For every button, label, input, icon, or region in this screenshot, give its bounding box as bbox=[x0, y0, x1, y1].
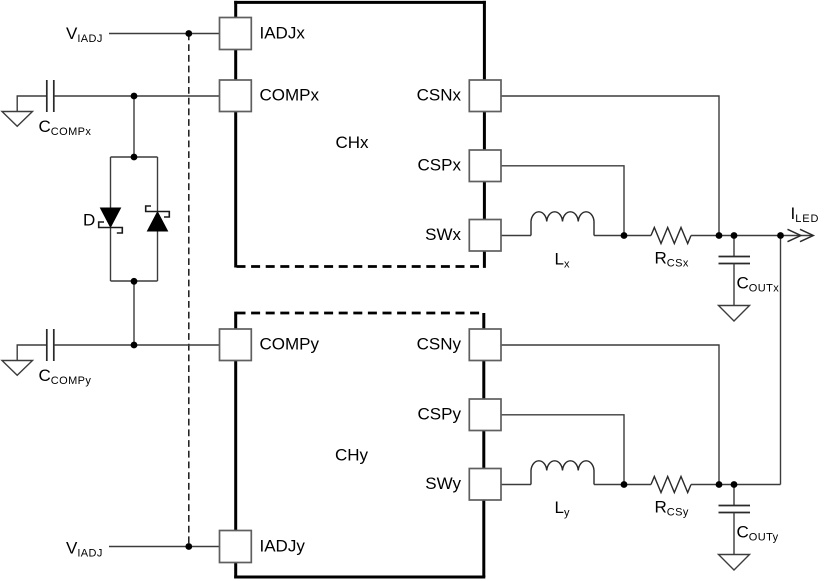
wire VIADJ bottom to IADJy bbox=[109, 546, 220, 548]
pin SWx bbox=[469, 220, 501, 252]
wire diode left branch lower bbox=[110, 228, 112, 282]
pin CSNx bbox=[469, 80, 501, 112]
IC CHy right edge bbox=[482, 313, 485, 577]
node on VIADJ top line bbox=[185, 30, 192, 37]
wire ground to CCOMPy bbox=[17, 345, 47, 361]
ground symbol at CCOMPx bbox=[2, 112, 33, 127]
svg-text:CSPy: CSPy bbox=[418, 404, 462, 423]
pin COMPy bbox=[220, 329, 252, 361]
wire diode right branch lower bbox=[157, 231, 159, 281]
wire CSNx to right bus bbox=[501, 96, 719, 236]
pin CSPy bbox=[469, 399, 501, 431]
IC CHx right edge bbox=[483, 1, 486, 268]
svg-text:RCSy: RCSy bbox=[655, 498, 689, 519]
svg-text:COUTy: COUTy bbox=[737, 523, 779, 544]
wire SWy to inductor bbox=[501, 484, 531, 486]
capacitor COUTy bbox=[719, 506, 751, 513]
svg-text:Ly: Ly bbox=[555, 498, 570, 519]
svg-text:COMPy: COMPy bbox=[260, 335, 320, 354]
svg-text:Lx: Lx bbox=[555, 250, 570, 271]
wire CSPy to Ly output node bbox=[501, 415, 624, 485]
svg-text:VIADJ: VIADJ bbox=[66, 24, 103, 45]
wire diode bottom to COMPy node bbox=[133, 281, 135, 345]
pin IADJx bbox=[220, 18, 252, 50]
wire COMPx node down to diode top rail bbox=[133, 96, 135, 157]
capacitor CCOMPy bbox=[47, 329, 54, 361]
svg-text:CSPx: CSPx bbox=[418, 155, 462, 174]
wire SWx to inductor bbox=[501, 235, 531, 237]
node COMPx / diode branch bbox=[131, 93, 138, 100]
node diode bottom rail bbox=[131, 278, 138, 285]
node COUTy tap bbox=[731, 481, 738, 488]
svg-text:VIADJ: VIADJ bbox=[66, 539, 103, 560]
wire CCOMPx to COMPx bbox=[54, 95, 220, 97]
node diode top rail bbox=[131, 154, 138, 161]
ground symbol at CCOMPy bbox=[2, 361, 33, 376]
wire CSPx to Lx output node bbox=[501, 166, 624, 236]
inductor Lx bbox=[531, 212, 594, 236]
svg-text:CCOMPx: CCOMPx bbox=[39, 117, 92, 138]
svg-text:CCOMPy: CCOMPy bbox=[39, 366, 92, 387]
wire COUTy stub bottom bbox=[733, 513, 735, 555]
wire VIADJ top to IADJx bbox=[109, 33, 220, 35]
svg-text:SWx: SWx bbox=[425, 225, 461, 244]
wire COUTx stub bottom bbox=[733, 264, 735, 306]
pin IADJy bbox=[220, 531, 252, 563]
pin COMPx bbox=[220, 80, 252, 112]
svg-text:RCSx: RCSx bbox=[655, 249, 689, 270]
IC CHx top edge bbox=[234, 1, 486, 4]
wire CSNy to right bus bbox=[501, 345, 719, 485]
svg-text:SWy: SWy bbox=[425, 474, 461, 493]
svg-text:D: D bbox=[83, 211, 95, 230]
IC CHy bottom edge bbox=[234, 576, 485, 579]
node on VIADJ bottom line bbox=[185, 543, 192, 550]
svg-text:ILED: ILED bbox=[791, 204, 820, 225]
pin CSPx bbox=[469, 150, 501, 182]
node Lx output / CSPx bbox=[621, 232, 628, 239]
IC CHy left edge bbox=[234, 312, 237, 579]
wire right bus down to channel y output bbox=[780, 236, 782, 485]
IC CHx bottom edge (dashed) bbox=[237, 265, 480, 268]
resistor RCSy bbox=[651, 477, 691, 493]
diode D right zener (cathode up) bbox=[146, 206, 170, 231]
dashed IADJ control line bbox=[188, 34, 190, 547]
node RCSx output / CSNx bbox=[716, 232, 723, 239]
inductor Ly bbox=[531, 461, 594, 485]
svg-text:CSNx: CSNx bbox=[417, 86, 462, 105]
wire Ly to RCSy bbox=[594, 484, 651, 486]
IC CHx left edge bbox=[234, 1, 237, 268]
svg-text:IADJy: IADJy bbox=[260, 537, 306, 556]
capacitor CCOMPx bbox=[47, 80, 54, 112]
pin CSNy bbox=[469, 329, 501, 361]
pin SWy bbox=[469, 469, 501, 501]
svg-text:IADJx: IADJx bbox=[260, 24, 306, 43]
node COUTx tap bbox=[731, 232, 738, 239]
wire diode bottom rail bbox=[111, 280, 158, 282]
diode D left zener (cathode down) bbox=[99, 208, 123, 233]
ground symbol at COUTx bbox=[719, 306, 750, 322]
svg-text:COMPx: COMPx bbox=[260, 86, 320, 105]
wire diode top rail bbox=[111, 156, 158, 158]
svg-text:CHy: CHy bbox=[335, 446, 369, 465]
wire RCSx to output and ILED arrow line bbox=[691, 235, 812, 237]
wire ground to CCOMPx bbox=[17, 96, 47, 112]
svg-text:COUTx: COUTx bbox=[737, 274, 780, 295]
wire diode right branch upper bbox=[157, 157, 159, 212]
ground symbol at COUTy bbox=[719, 555, 750, 571]
wire COUTy stub top bbox=[733, 485, 735, 506]
ILED arrow chevrons bbox=[788, 229, 814, 241]
node COMPy / diode branch bbox=[131, 342, 138, 349]
wire CCOMPy to COMPy bbox=[54, 344, 220, 346]
node ILED output bus bbox=[777, 232, 784, 239]
svg-text:CHx: CHx bbox=[336, 133, 370, 152]
resistor RCSx bbox=[651, 228, 691, 244]
wire diode left branch upper bbox=[110, 157, 112, 209]
wire COUTx stub top bbox=[733, 236, 735, 257]
wire Lx to RCSx bbox=[594, 235, 651, 237]
node RCSy output / CSNy bbox=[716, 481, 723, 488]
wire RCSy to right bus corner bbox=[691, 484, 781, 486]
svg-text:CSNy: CSNy bbox=[417, 335, 462, 354]
capacitor COUTx bbox=[719, 257, 751, 264]
IC CHy top edge (dashed) bbox=[237, 312, 481, 315]
node Ly output / CSPy bbox=[621, 481, 628, 488]
